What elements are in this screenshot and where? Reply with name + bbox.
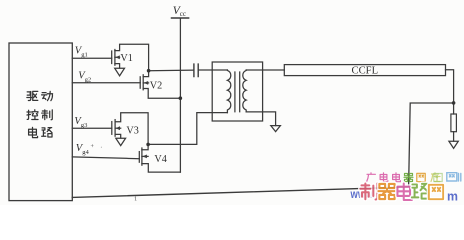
svg-text:g1: g1 [81,51,88,58]
transistor V3 source tick [115,134,121,138]
label Vg4 [76,143,103,156]
ground (sense resistor) [449,141,458,148]
svg-text:V3: V3 [126,125,138,136]
Vcc supply bar [172,17,189,19]
transistor V1 source arrow [115,68,125,76]
box text 驱动 控制 电路 (hand drawn glyphs) [27,91,53,137]
transistor V4 body arrow [142,155,147,159]
transistor V4 channel bar [141,148,143,165]
label Vg1 [75,45,88,58]
capacitor C plates [194,64,198,76]
svg-text:m: m [447,189,458,203]
control box (驱动控制电路) [9,43,72,201]
wire secondary bottom to ground [246,112,275,126]
transistor V4 body tick [142,155,148,157]
node dot source rail [179,96,183,100]
wire Vg3 gate lead [72,127,112,129]
node dot V1/V2 midpoint [147,69,151,73]
transistor V1 channel bar [114,50,116,66]
svg-text:V4: V4 [154,154,166,165]
transformer T box [212,62,262,121]
resistor R sense [453,103,455,114]
transistor V3 channel bar [114,120,116,137]
transistor V3 drain tick and wire to node [115,113,148,145]
node dot CCFL sense [452,101,456,105]
label Vcc [173,5,186,18]
transistor V4 source tick and wire to rail [142,164,181,173]
transistor V1 body tick [115,56,120,58]
svg-text:1: 1 [134,195,137,202]
svg-text:g2: g2 [85,76,92,83]
watermark big colorful glyphs [360,184,443,200]
svg-text:cc: cc [180,10,186,18]
wire sense node to feedback line [409,103,454,187]
ground (transformer secondary) [271,126,281,132]
transistor V3 body tick [115,127,121,129]
lamp CCFL body [284,65,445,76]
transistor V4 drain tick [142,144,148,149]
transistor V2 drain tick [143,71,148,77]
transformer core [235,72,240,112]
wire feedback bottom return [72,187,408,197]
node dot V3/V4 midpoint [146,143,150,147]
wire Vg4 gate lead [72,157,139,159]
wire capacitor to transformer primary top [199,69,228,71]
wire secondary top to CCFL [246,69,284,71]
wire Vg2 gate lead [72,82,140,84]
transformer secondary winding [243,70,246,112]
watermark fragments right of row1 [431,173,461,182]
svg-text:g4: g4 [82,149,89,156]
transistor V3 body arrow [116,126,120,130]
transistor V2 channel bar [142,75,144,90]
transistor V3 gate bar [111,122,113,135]
transistor V1 gate bar [111,51,113,64]
svg-text:V2: V2 [150,81,162,92]
wire Vg1 gate lead [72,57,111,59]
transistor V2 body arrow [144,81,149,85]
动 [42,91,53,100]
电 [29,127,38,137]
制 [42,110,53,120]
node A wire: bridge midpoint to capacitor [149,69,194,72]
transistor V4 gate bar [138,152,140,163]
transistor V2 source tick and wire to rail [143,89,180,99]
transistor V2 gate bar [139,77,141,88]
驱 [27,91,38,100]
svg-text:V1: V1 [120,53,132,64]
wire node B to transformer primary bottom [148,113,227,145]
label Vg2 [78,70,91,83]
transistor V1 source tick [115,64,120,68]
transformer primary winding [227,70,230,113]
wire CCFL right to sense node [446,70,454,103]
svg-text:CCFL: CCFL [352,66,379,77]
Vcc rail vertical [179,19,181,173]
watermark 广电电器网 (pink row) [367,173,426,182]
控 [27,110,38,120]
路 [42,128,52,137]
transistor V1 drain tick and wire to node [115,44,149,70]
label Vg3 [74,116,88,129]
transistor V2 body tick [143,82,148,84]
transistor V1 body arrow [115,55,119,59]
transistor V3 source arrow [116,138,126,145]
svg-text:g3: g3 [81,122,88,129]
